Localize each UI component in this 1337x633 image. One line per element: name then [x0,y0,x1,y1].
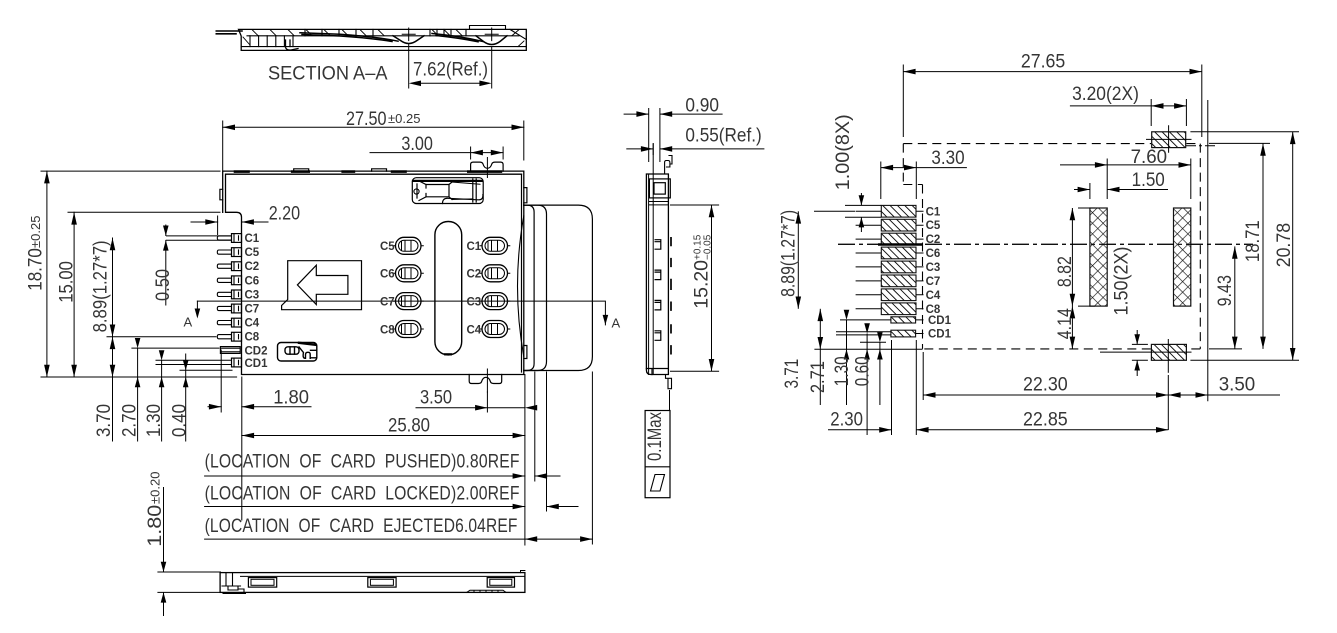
C8 row extension [107,336,216,338]
svg-text:C8: C8 [245,332,260,344]
body top edge thick segments [235,170,501,173]
svg-text:C5: C5 [245,247,260,259]
dim 0.40 line + ext [180,369,232,371]
svg-text:C8: C8 [380,324,395,336]
dim 1.50 [1089,183,1091,199]
svg-text:±0.25: ±0.25 [388,111,420,126]
svg-text:C2: C2 [467,269,482,281]
svg-text:A: A [184,315,193,330]
dim 0.90 / 0.55 [624,108,765,162]
dim 3.30 [880,162,882,200]
dimension 8.89 [112,238,114,337]
svg-text:C7: C7 [926,276,941,288]
dimension 7.62(Ref.) [409,44,492,88]
footprint C pads (hatched) [881,205,916,337]
svg-text:27.50: 27.50 [346,109,387,130]
svg-text:25.80: 25.80 [388,416,430,437]
svg-text:3.71: 3.71 [782,359,803,389]
footprint pad leader lines [836,211,924,335]
svg-text:±0.25: ±0.25 [28,216,43,248]
footprint pad labels [926,206,952,340]
top spring notch 3.00 [471,162,504,171]
dim 1.30 line [161,360,163,441]
dimension 3.00 [470,147,472,159]
dimension 2.20 [217,216,219,235]
right edge tabs [524,188,527,359]
card front arc inside body [518,216,524,357]
pin CD1 [156,358,242,367]
dim 22.30 [922,352,924,400]
svg-text:0.60: 0.60 [853,356,874,386]
svg-text:15.00: 15.00 [57,261,78,303]
section contact dip 2 [476,36,507,45]
side top tab [665,156,672,175]
dim 3.20(2X) [1150,99,1152,126]
svg-text:1.00(8X): 1.00(8X) [833,114,854,190]
bottom view window 1 [248,578,276,588]
side bottom foot [646,369,668,375]
CD2 row extension [132,347,219,349]
bottom view window 3 [487,578,514,588]
svg-text:0.50: 0.50 [153,269,174,301]
location rows lines [205,475,525,477]
svg-text:C3: C3 [245,289,260,301]
side bottom tab [666,375,672,389]
svg-text:0.90: 0.90 [685,95,719,116]
bottom view left block [222,573,244,593]
svg-text:0.55(Ref.): 0.55(Ref.) [685,125,761,146]
svg-text:22.85: 22.85 [1023,409,1068,430]
baseline ext fp [814,348,922,350]
svg-text:2.71: 2.71 [808,361,829,393]
section line A-A through body [197,301,605,325]
bottom view outline [220,573,525,593]
dim 3.50 (fp) [1168,394,1280,396]
dimension 15.00 [68,211,220,213]
svg-text:(LOCATION OF CARD LOCKED)2.: (LOCATION OF CARD LOCKED)2.00REF [205,483,520,505]
svg-text:C5: C5 [926,220,941,232]
footprint top pad [1152,132,1186,148]
dimension 27.50 extension lines [222,121,224,170]
svg-text:C2: C2 [245,261,260,273]
section spring arm left [300,33,398,42]
svg-text:2.30: 2.30 [830,409,863,430]
dimension 27.50 line [223,126,524,128]
bottom view serration [467,590,506,592]
svg-text:3.20(2X): 3.20(2X) [1072,84,1139,105]
footprint bottom pad [1151,344,1186,360]
svg-text:3.50: 3.50 [420,388,452,409]
latch detail top right [412,178,483,204]
arrow block (card direction) [282,261,362,310]
svg-text:22.30: 22.30 [1023,375,1068,396]
svg-text:C1: C1 [467,241,482,253]
svg-text:1.30: 1.30 [832,356,853,386]
dim 25.80 [242,435,525,437]
bottom view window 2 [368,578,396,588]
dim 1.80 pm 0.20 [157,487,221,616]
dim 18.71 [1209,142,1270,144]
svg-text:1.50(2X): 1.50(2X) [1112,247,1133,316]
svg-text:7.62(Ref.): 7.62(Ref.) [413,60,488,81]
section cross 2 [485,28,498,41]
side right dashes [670,238,672,354]
svg-text:1.50: 1.50 [1132,170,1165,191]
svg-text:18.70: 18.70 [26,248,47,291]
svg-text:3.30: 3.30 [931,148,964,169]
dimension 0.50 [165,225,167,236]
dimension 18.70 [41,170,220,172]
svg-text:1.80: 1.80 [273,388,309,409]
svg-text:7.60: 7.60 [1131,147,1168,168]
footprint centerline dash-dot [838,243,1253,245]
footprint dashed outline [903,144,1200,349]
section contact dip 1 [393,36,424,44]
arrowheads main dims [44,125,592,542]
contact ovals in body [393,237,510,337]
dim 2.30 [891,340,893,435]
footprint arrowheads [796,69,1296,433]
CD1 pads [891,317,916,323]
bottom spring notch [469,375,502,384]
dim 3.50 [486,392,488,412]
dim 8.82 / 4.14 [1078,207,1095,209]
contact labels left column [380,241,482,336]
svg-text:C7: C7 [380,297,395,309]
top bumps [294,169,387,171]
svg-text:8.82: 8.82 [1055,256,1076,287]
svg-text:1.30: 1.30 [144,404,165,437]
svg-text:8.89(1.27*7): 8.89(1.27*7) [779,210,800,297]
svg-text:C4: C4 [467,324,482,336]
svg-text:CD2: CD2 [245,346,268,358]
svg-text:0.40: 0.40 [170,404,191,437]
svg-text:(LOCATION OF CARD EJECTED6.: (LOCATION OF CARD EJECTED6.04REF [205,515,518,537]
dim 22.85 [915,340,917,435]
side contact windows [655,240,661,341]
svg-text:C1: C1 [926,206,941,218]
svg-text:C1: C1 [245,233,260,245]
svg-text:C6: C6 [926,248,941,260]
footprint X pads [1090,208,1191,306]
svg-text:15.20: 15.20 [692,260,713,309]
section left pin [216,31,242,34]
svg-text:27.65: 27.65 [1021,52,1065,73]
svg-text:SECTION A–A: SECTION A–A [268,64,388,85]
dim 9.43 [1209,348,1242,350]
lock detail bottom [278,343,317,362]
dim 7.60 [1106,159,1108,200]
right top tick [521,571,525,573]
dim 1.80 [220,350,222,412]
section body outline [239,29,527,50]
dim 8.89 fp [797,211,799,308]
svg-text:3.00: 3.00 [401,134,433,155]
svg-text:CD1: CD1 [928,329,952,341]
svg-text:±0.20: ±0.20 [148,472,163,504]
svg-text:4.14: 4.14 [1055,308,1076,339]
section top-right tab [470,26,506,30]
pin labels [245,233,269,370]
svg-text:20.78: 20.78 [1274,223,1295,267]
section spring arm right [432,34,483,42]
flatness callout [645,390,670,498]
svg-text:2.70: 2.70 [120,404,141,437]
right vertical solid [1207,100,1209,401]
svg-text:2.20: 2.20 [269,203,300,224]
side pin tip lines [648,174,650,375]
dim 3.70 line [112,337,114,441]
svg-text:0.1Max: 0.1Max [645,412,666,461]
body left tab [220,189,223,200]
svg-text:C3: C3 [467,297,482,309]
dims 3.71/2.71/1.30/0.60 [819,309,821,405]
pins (left side) [156,234,242,367]
svg-text:1.80: 1.80 [145,505,166,547]
svg-text:3.50: 3.50 [1219,375,1256,396]
svg-text:CD1: CD1 [245,358,269,370]
section cross 1 [402,28,415,41]
svg-text:C3: C3 [926,262,941,274]
svg-text:C4: C4 [926,290,941,302]
central slot stadium [435,222,462,355]
side view body [646,174,668,375]
pin C1 extension lines [166,236,232,240]
svg-text:C7: C7 [245,304,260,316]
svg-text:8.89(1.27*7): 8.89(1.27*7) [91,240,112,332]
pin CD2 [220,347,240,354]
svg-text:A: A [612,316,621,331]
svg-text:C4: C4 [245,318,260,330]
body outer shell [223,171,524,374]
dim 15.20 [670,205,719,371]
svg-text:C5: C5 [380,241,395,253]
svg-text:(LOCATION OF CARD PUSHED)0.: (LOCATION OF CARD PUSHED)0.80REF [205,451,520,473]
svg-text:C8: C8 [926,304,941,316]
svg-text:3.70: 3.70 [94,404,115,437]
section J hook [286,40,299,50]
svg-text:18.71: 18.71 [1243,220,1264,262]
svg-text:−0.05: −0.05 [703,234,714,260]
svg-text:C6: C6 [245,275,260,287]
dim 1.50(2X) [1132,343,1148,345]
card (ejected/locked/pushed outlines) [518,205,593,370]
section hatch diagonals [243,30,524,47]
section left cell ticks [250,36,293,47]
section top band ticks [305,29,466,35]
baseline extension (body bottom) [41,376,237,378]
dim 2.70 line [137,348,139,441]
svg-text:CD1: CD1 [928,315,952,327]
svg-text:9.43: 9.43 [1215,275,1236,306]
svg-text:C6: C6 [380,269,395,281]
side latch window [649,179,670,198]
dim 20.78 [1190,131,1299,133]
dim 27.65 [902,65,904,138]
dim 1.00(8X) [845,204,881,206]
